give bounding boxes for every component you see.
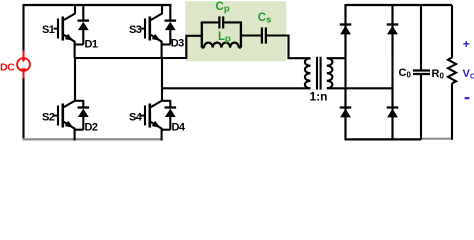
rectifier diode DR3 [340, 88, 352, 139]
transformer T1 secondary winding [327, 58, 333, 88]
wire node B to transformer primary bottom [162, 87, 311, 89]
wire bottom rail (gray) [23, 138, 163, 140]
svg-text:S1: S1 [42, 24, 55, 36]
wire bottom rail gray segment [421, 138, 452, 140]
wire parallel block right bar [240, 22, 242, 47]
wire rectifier top rail [346, 4, 453, 6]
svg-text:1:n: 1:n [310, 90, 328, 104]
capacitor C0 [413, 5, 430, 139]
wire Cs to transformer [267, 36, 311, 59]
svg-text:DC: DC [0, 61, 15, 73]
svg-text:S2: S2 [42, 111, 55, 123]
diode D2 [75, 100, 89, 130]
diode D1 [75, 4, 89, 45]
svg-text:D1: D1 [85, 38, 98, 50]
wire secondary bottom lead [327, 87, 393, 89]
rectifier diode DR4 [387, 88, 399, 139]
transformer T1 core [317, 57, 321, 90]
svg-text:Cp: Cp [216, 1, 230, 15]
capacitor Cp [219, 16, 223, 28]
svg-text:Cs: Cs [258, 12, 272, 26]
IGBT S2 [54, 58, 75, 141]
rectifier diode DR2 [387, 5, 399, 58]
svg-text:D3: D3 [171, 37, 184, 49]
wire parallel block top branch [201, 21, 242, 23]
wire left rail lower [22, 78, 24, 140]
svg-text:+: + [463, 37, 470, 51]
IGBT S4 [141, 58, 162, 141]
rectifier diode DR1 [340, 5, 352, 58]
wire node A to tank input [75, 36, 202, 58]
wire secondary top lead [327, 57, 346, 59]
label minus [465, 97, 470, 99]
wire parallel block left bar [201, 22, 203, 47]
wire block to Cs [241, 34, 261, 36]
wire top rail [24, 4, 172, 6]
IGBT S1 [54, 4, 75, 58]
resonant tank highlight box [185, 1, 286, 61]
wire rectifier left leg [344, 4, 346, 140]
capacitor Cs [262, 27, 266, 43]
diode D3 [162, 4, 176, 45]
IGBT S3 [141, 4, 162, 58]
wire rectifier bottom rail [345, 138, 422, 140]
inductor Lp [202, 43, 241, 48]
resistor R0 [448, 5, 456, 140]
DC source V1 [17, 51, 30, 79]
transformer T1 primary winding [305, 58, 311, 88]
wire left rail upper [22, 4, 24, 51]
svg-text:Lp: Lp [218, 31, 231, 45]
wire rectifier right leg [391, 4, 393, 140]
svg-text:S4: S4 [129, 111, 143, 123]
svg-text:D2: D2 [85, 122, 98, 134]
svg-text:S3: S3 [129, 24, 142, 36]
diode D4 [162, 100, 176, 130]
svg-text:D4: D4 [172, 122, 186, 134]
